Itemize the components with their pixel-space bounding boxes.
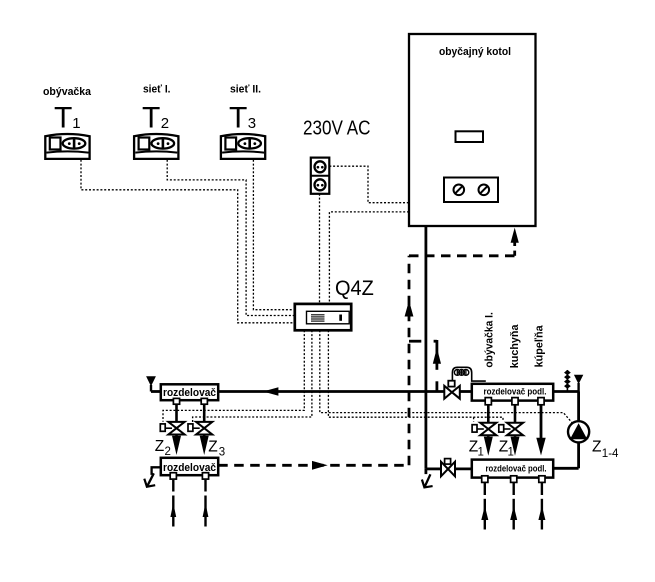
wire socket to boiler: [329, 166, 409, 203]
svg-text:sieť II.: sieť II.: [230, 84, 261, 96]
svg-text:2: 2: [161, 115, 169, 132]
socket 230V: [311, 158, 330, 194]
svg-text:3: 3: [219, 446, 225, 458]
floor arrows below box2: [170, 480, 208, 527]
svg-text:rozdelovač podl.: rozdelovač podl.: [486, 464, 547, 474]
thermostat T2: [134, 134, 178, 159]
valve Z1 first: [472, 405, 496, 456]
wire T2 to Q4Z: [167, 160, 295, 316]
wire socket to Q4Z: [319, 194, 321, 304]
wire Q4Z to valve Z3: [193, 330, 312, 424]
continuation arrow left of box2: [144, 467, 161, 486]
svg-text:T: T: [54, 101, 72, 134]
boiler obyčajný kotol: [409, 34, 536, 226]
svg-text:kuchyňa: kuchyňa: [509, 324, 521, 369]
distributor box rozdelovač podl. 1: [472, 384, 553, 405]
wire branch to valve Z1 first: [473, 417, 475, 421]
svg-text:rozdelovač: rozdelovač: [163, 387, 216, 399]
dashed top to boiler: [409, 254, 515, 257]
controller Q4Z: [295, 304, 351, 330]
svg-text:T: T: [142, 101, 160, 134]
label T3: [229, 101, 256, 134]
valve Z1 second: [499, 405, 523, 456]
label Z3: [208, 439, 225, 459]
funnel left: [146, 376, 156, 386]
wire T1 to Q4Z: [81, 160, 295, 323]
bottom pipe right: [426, 467, 441, 470]
wire Q4Z to pump: [320, 330, 572, 423]
svg-text:Z: Z: [155, 438, 164, 455]
motorized valve with coil: [444, 367, 486, 398]
valve on bottom pipe: [441, 459, 455, 477]
funnel right: [574, 375, 583, 385]
distributor box rozdelovač podl. 2: [472, 460, 553, 483]
label Z1 second: [499, 438, 514, 458]
svg-text:Z: Z: [208, 439, 217, 456]
label Z1-4: [592, 438, 619, 460]
label T2: [142, 101, 169, 134]
svg-text:T: T: [229, 101, 247, 134]
svg-text:1: 1: [508, 447, 514, 459]
pipe funnel stub left: [150, 385, 152, 392]
valve Z3: [188, 404, 212, 455]
thermostat T1: [45, 134, 89, 159]
pump Z1-4: [568, 421, 589, 442]
svg-text:Z: Z: [592, 438, 601, 455]
pipe right loop: [553, 390, 579, 393]
arrow on dashed return: [312, 461, 328, 470]
svg-text:2: 2: [165, 446, 171, 458]
continuation arrow bottom of riser: [422, 469, 433, 488]
distributor box rozdelovač 2: [161, 458, 218, 479]
svg-text:sieť I.: sieť I.: [143, 84, 171, 96]
svg-text:Q4Z: Q4Z: [335, 276, 374, 300]
svg-text:230V AC: 230V AC: [303, 117, 371, 140]
dashed riser: [408, 256, 411, 465]
wire T3 to Q4Z: [253, 160, 294, 310]
distributor box rozdelovač 1: [161, 384, 218, 404]
svg-text:1-4: 1-4: [602, 448, 619, 460]
label Z2: [155, 438, 171, 458]
wire boiler to Q4Z: [329, 212, 409, 304]
label T1: [54, 101, 81, 134]
svg-text:obývačka I.: obývačka I.: [483, 312, 495, 368]
svg-text:kúpeľňa: kúpeľňa: [534, 325, 546, 368]
dashed return pipe from box2: [218, 464, 409, 467]
arrow on main pipe (left): [263, 387, 278, 395]
floor arrows below boxR2: [481, 483, 545, 530]
valve Z2: [160, 404, 184, 455]
svg-text:1: 1: [478, 447, 484, 459]
svg-text:obyčajný kotol: obyčajný kotol: [439, 46, 511, 58]
pipe main horizontal: [218, 390, 444, 393]
svg-text:obývačka: obývačka: [43, 86, 92, 98]
svg-text:3: 3: [248, 115, 256, 132]
label Z1 first: [469, 438, 484, 458]
arrow on dashed riser: [405, 301, 414, 317]
dashed branch to mvalve: [409, 340, 421, 343]
third outlet arrow: [536, 404, 545, 455]
wire Q4Z to valve Z2: [163, 330, 304, 422]
vent symbol: [564, 370, 571, 392]
svg-text:1: 1: [72, 115, 80, 132]
svg-text:rozdelovač podl.: rozdelovač podl.: [484, 387, 547, 397]
arrow on branch: [433, 348, 441, 364]
thermostat T3: [221, 134, 265, 159]
arrow into boiler: [511, 228, 519, 243]
wire Q4Z to valves Z1: [328, 330, 503, 421]
pipe boiler supply vertical: [424, 226, 427, 469]
